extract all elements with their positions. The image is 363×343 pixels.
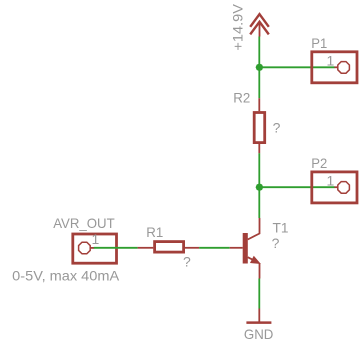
svg-text:0-5V, max 40mA: 0-5V, max 40mA <box>12 267 120 283</box>
svg-text:+14.9V: +14.9V <box>230 3 246 50</box>
wire vertical rail middle (R2 to T1 collector) <box>258 153 260 218</box>
junction node B <box>256 183 264 191</box>
connector P2 <box>312 172 357 203</box>
transistor T1 <box>230 218 260 279</box>
svg-text:R2: R2 <box>233 90 250 106</box>
svg-text:T1: T1 <box>273 220 289 236</box>
resistor R2 <box>254 98 265 153</box>
svg-text:?: ? <box>272 235 280 251</box>
svg-text:1: 1 <box>327 53 335 69</box>
power symbol +14.9V <box>250 14 269 36</box>
svg-text:GND: GND <box>244 326 274 342</box>
resistor R1 <box>138 242 200 253</box>
svg-text:P1: P1 <box>311 35 327 51</box>
connector P1 <box>312 52 357 83</box>
junction node A <box>256 64 264 72</box>
wire junction to P2 <box>259 186 334 188</box>
wire vertical rail top (power to R2) <box>258 37 260 99</box>
svg-text:R1: R1 <box>146 224 163 240</box>
svg-text:P2: P2 <box>311 155 327 171</box>
svg-text:AVR_OUT: AVR_OUT <box>53 215 115 231</box>
svg-text:1: 1 <box>92 231 100 247</box>
connector AVR_OUT <box>73 234 117 263</box>
svg-text:1: 1 <box>327 173 335 189</box>
svg-text:?: ? <box>273 119 281 135</box>
svg-text:?: ? <box>183 254 191 270</box>
ground <box>246 309 271 323</box>
wire AVR_OUT to R1 <box>94 247 138 249</box>
wire R1 to T1 base <box>199 247 230 249</box>
wire T1 emitter to GND <box>258 279 260 309</box>
wire junction to P1 <box>259 66 334 68</box>
